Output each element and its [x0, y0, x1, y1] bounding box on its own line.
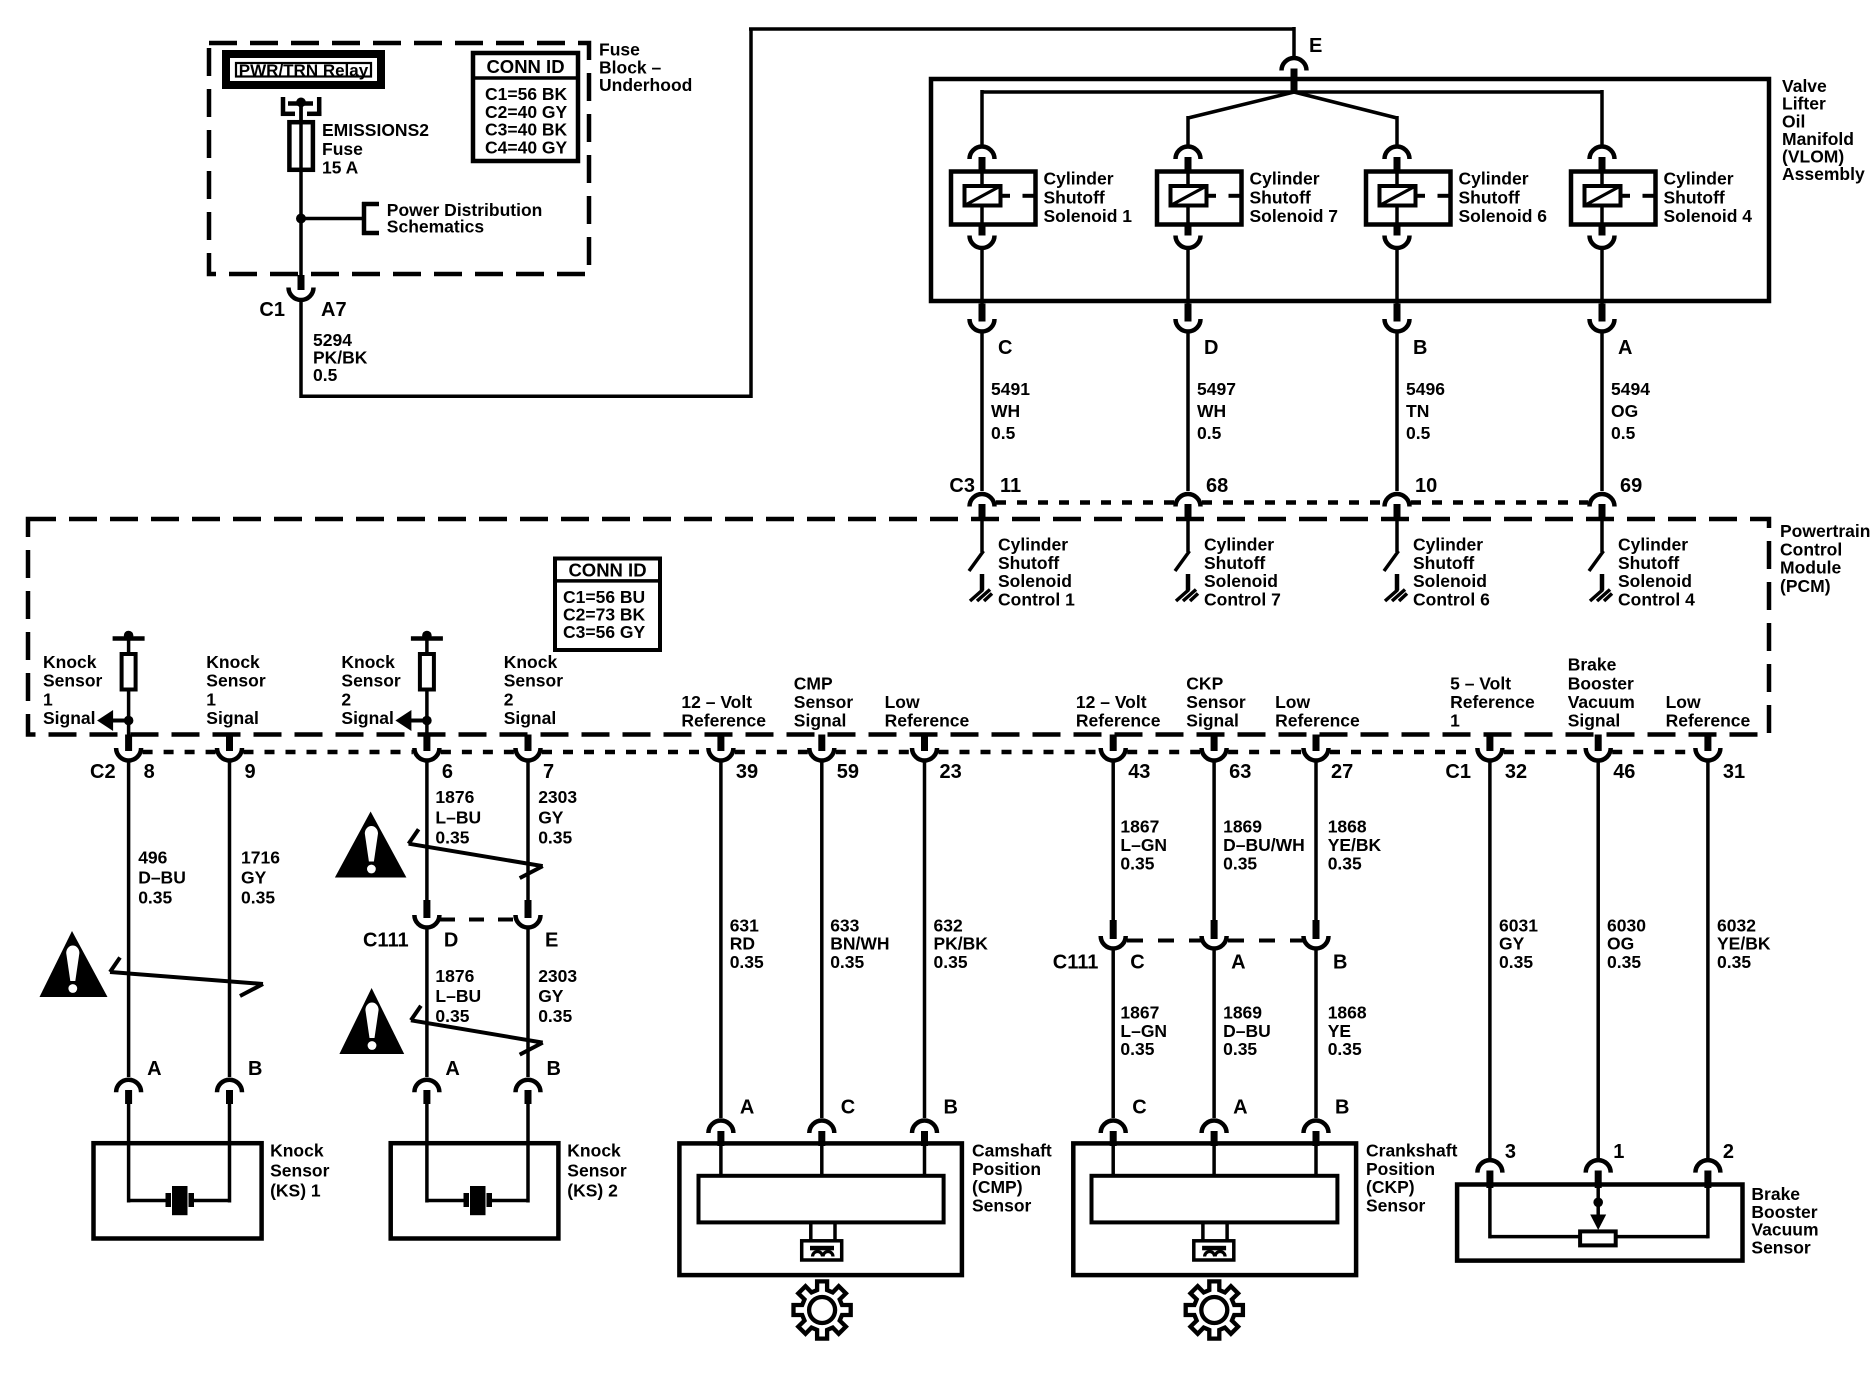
svg-text:Shutoff: Shutoff	[1204, 553, 1265, 573]
svg-text:C2: C2	[90, 761, 116, 783]
svg-text:0.5: 0.5	[1611, 423, 1636, 443]
svg-text:EMISSIONS2: EMISSIONS2	[322, 120, 429, 140]
svg-text:Cylinder: Cylinder	[1664, 169, 1734, 189]
svg-text:Schematics: Schematics	[387, 217, 485, 237]
CMP pin A connector	[708, 1121, 733, 1134]
svg-text:Assembly: Assembly	[1782, 164, 1865, 184]
C111 pin E	[525, 900, 532, 918]
VLOM connector pin D	[1185, 304, 1192, 322]
wire 6030 OG 0.35 (pin 46 to BBV 1)	[1596, 762, 1600, 1158]
svg-text:5494: 5494	[1611, 379, 1650, 399]
PCM pin 23 connector	[921, 735, 928, 752]
svg-text:46: 46	[1613, 761, 1635, 783]
solenoid top connector 4	[1590, 146, 1615, 159]
wire 1867 L-GN 0.35 upper (pin 43 to C111 C)	[1111, 762, 1115, 921]
C111 body dashed line	[440, 918, 515, 922]
wire 1867 L-GN 0.35 lower (C111 C to CKP C)	[1111, 950, 1115, 1118]
svg-text:0.35: 0.35	[138, 888, 172, 908]
wire solenoid 4 to pin	[1600, 249, 1604, 304]
BBV potentiometer	[1490, 1188, 1708, 1245]
svg-text:1: 1	[43, 689, 53, 709]
svg-text:E: E	[1309, 35, 1322, 57]
solenoid top connector 3	[1385, 146, 1410, 159]
svg-text:Cylinder: Cylinder	[1459, 169, 1529, 189]
svg-text:C: C	[841, 1097, 855, 1119]
fuse EMISSIONS2 15 A	[299, 103, 303, 170]
CKP connector pedestal icon	[1194, 1222, 1234, 1260]
svg-text:L–BU: L–BU	[435, 986, 481, 1006]
svg-text:Sensor: Sensor	[972, 1195, 1032, 1215]
svg-text:Powertrain: Powertrain	[1780, 521, 1870, 541]
svg-text:C111: C111	[363, 930, 409, 952]
wire 2303 GY 0.35 upper (pin 7 to C111 E)	[526, 762, 530, 901]
svg-text:2: 2	[504, 689, 514, 709]
wires into KS1	[127, 1104, 131, 1203]
BBV pin 3 connector	[1477, 1160, 1502, 1173]
fuse block underhood dashed box	[209, 43, 589, 274]
svg-text:Control 7: Control 7	[1204, 589, 1281, 609]
svg-text:0.5: 0.5	[1406, 423, 1431, 443]
svg-text:Reference: Reference	[1666, 711, 1751, 731]
svg-text:Knock: Knock	[567, 1140, 621, 1160]
svg-text:9: 9	[245, 761, 256, 783]
svg-text:631: 631	[730, 916, 759, 936]
C111 pin B	[1313, 920, 1320, 939]
svg-text:Cylinder: Cylinder	[1044, 169, 1114, 189]
svg-text:0.35: 0.35	[1607, 952, 1641, 972]
ground (PCM internal) 4	[1590, 590, 1603, 602]
bracket to Power Distribution Schematics	[362, 202, 367, 235]
signal arrow at R2 knock sensor 2 bias	[422, 716, 432, 726]
svg-text:D: D	[444, 930, 458, 952]
solenoid top connector 2	[1176, 146, 1201, 159]
solenoid bottom connector 4	[1599, 225, 1606, 236]
wire 631 RD 0.35 (pin 39 to CMP A)	[719, 762, 723, 1118]
switch: cylinder shutoff solenoid control 4 driver	[1600, 520, 1604, 552]
wire 6031 GY 0.35 (pin 32 to BBV 3)	[1488, 762, 1492, 1158]
wire 633 BN/WH 0.35 (pin 59 to CMP C)	[820, 762, 824, 1118]
svg-text:Solenoid: Solenoid	[1204, 571, 1278, 591]
svg-text:Signal: Signal	[341, 708, 394, 728]
svg-text:Camshaft: Camshaft	[972, 1141, 1052, 1161]
svg-text:Knock: Knock	[341, 652, 395, 672]
svg-text:(CKP): (CKP)	[1366, 1177, 1415, 1197]
svg-text:B: B	[547, 1058, 561, 1080]
svg-text:A: A	[740, 1097, 754, 1119]
svg-text:(PCM): (PCM)	[1780, 576, 1831, 596]
relay contact pin symbol	[281, 97, 322, 122]
svg-text:1876: 1876	[435, 966, 474, 986]
svg-text:WH: WH	[991, 401, 1020, 421]
svg-text:BN/WH: BN/WH	[830, 934, 889, 954]
PCM pin 27 connector	[1313, 735, 1320, 752]
connector C3 pin 68	[1176, 494, 1201, 507]
svg-text:0.35: 0.35	[1717, 952, 1751, 972]
wire 6032 YE/BK 0.35 (pin 31 to BBV 2)	[1706, 762, 1710, 1158]
svg-text:Knock: Knock	[270, 1140, 324, 1160]
svg-text:CONN ID: CONN ID	[486, 56, 564, 77]
svg-text:43: 43	[1128, 761, 1150, 783]
svg-text:YE/BK: YE/BK	[1717, 934, 1771, 954]
svg-text:B: B	[1413, 337, 1427, 359]
PCM pin 7 connector	[525, 735, 532, 752]
knock sensor KS2 box	[391, 1143, 559, 1238]
KS2 piezo transducer	[427, 1186, 528, 1215]
PCM pin 46 connector	[1595, 735, 1602, 752]
svg-text:2303: 2303	[538, 787, 577, 807]
svg-text:A: A	[1618, 337, 1632, 359]
svg-text:Control 4: Control 4	[1618, 589, 1695, 609]
PCM pin 6 connector	[423, 735, 430, 752]
svg-text:0.35: 0.35	[934, 952, 968, 972]
svg-text:0.35: 0.35	[1223, 854, 1257, 874]
svg-text:68: 68	[1206, 475, 1228, 497]
svg-text:5497: 5497	[1197, 379, 1236, 399]
svg-text:0.35: 0.35	[1328, 1039, 1362, 1059]
svg-text:Solenoid 6: Solenoid 6	[1459, 206, 1548, 226]
svg-text:6031: 6031	[1499, 916, 1538, 936]
svg-text:1: 1	[1613, 1141, 1624, 1163]
svg-text:Shutoff: Shutoff	[998, 553, 1059, 573]
KS2 pin A connector	[414, 1080, 439, 1093]
svg-text:C: C	[998, 337, 1012, 359]
PCM CONN ID table	[555, 559, 660, 651]
svg-text:C1: C1	[1445, 761, 1471, 783]
brake booster vacuum sensor box	[1457, 1185, 1742, 1261]
svg-text:TN: TN	[1406, 401, 1429, 421]
svg-text:Shutoff: Shutoff	[1618, 553, 1679, 573]
wire solenoid 1 to pin	[980, 249, 984, 304]
svg-text:Solenoid 1: Solenoid 1	[1044, 206, 1133, 226]
svg-text:L–BU: L–BU	[435, 807, 481, 827]
svg-text:Position: Position	[972, 1159, 1041, 1179]
PCM pin 8 connector	[125, 735, 132, 752]
KS1 piezo transducer	[129, 1186, 230, 1215]
note pointer line 3	[411, 1006, 543, 1055]
svg-text:Position: Position	[1366, 1159, 1435, 1179]
switch: cylinder shutoff solenoid control 6 driver	[1395, 520, 1399, 552]
solenoid L7 Cylinder Shutoff Solenoid 7	[1157, 172, 1242, 225]
CMP connector pedestal icon	[802, 1222, 842, 1260]
svg-text:OG: OG	[1611, 401, 1638, 421]
CKP inner element	[1092, 1176, 1338, 1223]
svg-text:C4=40 GY: C4=40 GY	[485, 137, 568, 157]
svg-text:A: A	[445, 1058, 459, 1080]
svg-text:Crankshaft: Crankshaft	[1366, 1141, 1458, 1161]
svg-text:2: 2	[341, 689, 351, 709]
svg-text:C: C	[1130, 952, 1144, 974]
svg-text:YE: YE	[1328, 1021, 1351, 1041]
svg-text:3: 3	[1505, 1141, 1516, 1163]
svg-text:Vacuum: Vacuum	[1568, 692, 1635, 712]
PCM Powertrain Control Module dashed box	[28, 519, 1769, 735]
svg-text:C: C	[1132, 1097, 1146, 1119]
junction node at fuse output	[296, 214, 306, 224]
svg-text:Cylinder: Cylinder	[1204, 535, 1274, 555]
svg-text:39: 39	[736, 761, 758, 783]
svg-text:C111: C111	[1053, 952, 1099, 974]
CMP sensor box	[679, 1143, 962, 1275]
svg-text:Reference: Reference	[1076, 711, 1161, 731]
switch: cylinder shutoff solenoid control 1 driver	[980, 520, 984, 552]
svg-text:Sensor: Sensor	[794, 692, 854, 712]
svg-text:Knock: Knock	[206, 652, 260, 672]
svg-text:GY: GY	[241, 868, 267, 888]
svg-text:WH: WH	[1197, 401, 1226, 421]
C111 body dashed lines	[1127, 939, 1201, 943]
solenoid L1 Cylinder Shutoff Solenoid 1	[951, 172, 1036, 225]
svg-text:1868: 1868	[1328, 817, 1367, 837]
svg-text:496: 496	[138, 848, 167, 868]
svg-text:C3: C3	[949, 475, 975, 497]
PCM pin 63 connector	[1211, 735, 1218, 752]
VLOM connector pin A	[1599, 304, 1606, 322]
svg-text:0.35: 0.35	[538, 1006, 572, 1026]
svg-text:0.35: 0.35	[1499, 952, 1533, 972]
svg-text:Shutoff: Shutoff	[1413, 553, 1474, 573]
svg-text:Solenoid 4: Solenoid 4	[1664, 206, 1753, 226]
KS2 pin B connector	[516, 1080, 541, 1093]
wire 1876 L-BU 0.35 lower (C111 D to KS2 A)	[425, 929, 429, 1077]
svg-text:12 – Volt: 12 – Volt	[1076, 692, 1147, 712]
warning triangle note 2	[335, 812, 407, 878]
svg-text:Solenoid 7: Solenoid 7	[1250, 206, 1338, 226]
wire 1869 D-BU 0.35 lower (C111 A to CKP A)	[1212, 950, 1216, 1118]
CMP inner element	[699, 1176, 944, 1223]
svg-text:Reference: Reference	[1450, 692, 1535, 712]
CMP pin C connector	[809, 1121, 834, 1134]
svg-text:Signal: Signal	[1186, 711, 1239, 731]
svg-text:Low: Low	[885, 692, 920, 712]
svg-text:Cylinder: Cylinder	[1250, 169, 1320, 189]
svg-text:Sensor: Sensor	[504, 671, 564, 691]
svg-text:PK/BK: PK/BK	[934, 934, 989, 954]
svg-text:CMP: CMP	[794, 673, 833, 693]
svg-text:Sensor: Sensor	[43, 671, 103, 691]
svg-text:Solenoid: Solenoid	[1618, 571, 1692, 591]
warning triangle note 3	[339, 988, 404, 1054]
connector C3 pin 69	[1590, 494, 1615, 507]
svg-text:Module: Module	[1780, 558, 1842, 578]
svg-text:Shutoff: Shutoff	[1664, 187, 1725, 207]
svg-text:Sensor: Sensor	[1366, 1195, 1426, 1215]
svg-text:6: 6	[442, 761, 453, 783]
svg-text:8: 8	[144, 761, 155, 783]
wire 632 PK/BK 0.35 (pin 23 to CMP B)	[923, 762, 927, 1118]
svg-text:D–BU: D–BU	[138, 868, 186, 888]
svg-text:Sensor: Sensor	[1751, 1238, 1811, 1258]
svg-text:A7: A7	[321, 299, 347, 321]
switch: cylinder shutoff solenoid control 7 driver	[1186, 520, 1190, 552]
svg-text:C3=56 GY: C3=56 GY	[563, 622, 646, 642]
svg-text:1: 1	[206, 689, 216, 709]
svg-text:7: 7	[543, 761, 554, 783]
wire 5294 PK/BK 0.5	[299, 301, 303, 398]
svg-text:(KS) 2: (KS) 2	[567, 1181, 618, 1201]
wire 1868 YE/BK 0.35 upper (pin 27 to C111 B)	[1314, 762, 1318, 921]
svg-text:5491: 5491	[991, 379, 1030, 399]
svg-text:Shutoff: Shutoff	[1459, 187, 1520, 207]
svg-text:Shutoff: Shutoff	[1250, 187, 1311, 207]
C111 pin A	[1211, 920, 1218, 939]
C111 pin D	[423, 900, 430, 918]
svg-text:27: 27	[1331, 761, 1353, 783]
CKP pin A connector	[1202, 1121, 1227, 1134]
svg-text:D: D	[1204, 337, 1218, 359]
svg-text:Signal: Signal	[206, 708, 259, 728]
resistor R1 knock sensor 1 bias	[113, 636, 145, 641]
svg-text:10: 10	[1415, 475, 1437, 497]
wire 1868 YE 0.35 lower (C111 B to CKP B)	[1314, 950, 1318, 1118]
wire 1876 L-BU 0.35 upper (pin 6 to C111 D)	[425, 762, 429, 901]
svg-text:Underhood: Underhood	[599, 75, 692, 95]
svg-text:0.35: 0.35	[730, 952, 764, 972]
svg-text:L–GN: L–GN	[1120, 835, 1167, 855]
svg-text:A: A	[1233, 1097, 1247, 1119]
knock sensor KS1 box	[94, 1143, 262, 1238]
svg-text:A: A	[1231, 952, 1245, 974]
solenoid bottom connector 3	[1394, 225, 1401, 236]
note pointer line 2	[409, 829, 543, 878]
CKP sensor box	[1073, 1143, 1356, 1275]
wire E distribution bus inside VLOM	[982, 90, 1602, 94]
svg-text:GY: GY	[538, 986, 564, 1006]
fuse block CONN ID table	[473, 53, 578, 161]
svg-text:Signal: Signal	[43, 708, 96, 728]
svg-text:32: 32	[1505, 761, 1527, 783]
svg-text:(CMP): (CMP)	[972, 1177, 1023, 1197]
svg-text:Sensor: Sensor	[341, 671, 401, 691]
VLOM assembly box	[931, 79, 1769, 301]
note pointer line 1	[110, 958, 263, 997]
warning triangle note 1	[40, 931, 108, 997]
wire 1716 GY 0.35 (pin 9 to KS1 B)	[228, 762, 232, 1077]
svg-text:5496: 5496	[1406, 379, 1445, 399]
svg-text:0.35: 0.35	[241, 888, 275, 908]
svg-text:D–BU: D–BU	[1223, 1021, 1271, 1041]
svg-text:0.35: 0.35	[538, 827, 572, 847]
svg-text:0.5: 0.5	[313, 365, 338, 385]
svg-text:Signal: Signal	[504, 708, 557, 728]
svg-text:633: 633	[830, 916, 859, 936]
PCM pin 59 connector	[818, 735, 825, 752]
resistor R2 knock sensor 2 bias	[411, 636, 443, 641]
svg-text:B: B	[944, 1097, 958, 1119]
svg-text:L–GN: L–GN	[1120, 1021, 1167, 1041]
PCM pin 43 connector	[1110, 735, 1117, 752]
svg-text:Solenoid: Solenoid	[1413, 571, 1487, 591]
connector C1 pin A7 (fuse block exit)	[298, 275, 305, 290]
connector E at VLOM	[1282, 58, 1307, 71]
svg-text:C1: C1	[259, 299, 285, 321]
svg-text:Fuse: Fuse	[322, 139, 363, 159]
gear icon (CKP reluctor)	[1186, 1281, 1243, 1338]
svg-text:Reference: Reference	[1275, 711, 1360, 731]
svg-text:Cylinder: Cylinder	[1413, 535, 1483, 555]
svg-text:Low: Low	[1275, 692, 1310, 712]
svg-text:632: 632	[934, 916, 963, 936]
svg-text:YE/BK: YE/BK	[1328, 835, 1382, 855]
svg-text:GY: GY	[1499, 934, 1525, 954]
svg-text:0.35: 0.35	[435, 827, 469, 847]
svg-text:0.35: 0.35	[1120, 1039, 1154, 1059]
solenoid bottom connector 2	[1185, 225, 1192, 236]
svg-text:6030: 6030	[1607, 916, 1646, 936]
svg-text:69: 69	[1620, 475, 1642, 497]
svg-text:1716: 1716	[241, 848, 280, 868]
CKP pin C connector	[1101, 1121, 1126, 1134]
PCM pin 31 connector	[1704, 735, 1711, 752]
KS1 pin B connector	[217, 1080, 242, 1093]
svg-text:31: 31	[1723, 761, 1745, 783]
svg-text:6032: 6032	[1717, 916, 1756, 936]
svg-text:Cylinder: Cylinder	[1618, 535, 1688, 555]
svg-text:Booster: Booster	[1568, 673, 1634, 693]
svg-text:12 – Volt: 12 – Volt	[681, 692, 752, 712]
svg-text:Reference: Reference	[885, 711, 970, 731]
VLOM connector pin B	[1394, 304, 1401, 322]
wire solenoid 7 to pin	[1186, 249, 1190, 304]
solenoid L4 Cylinder Shutoff Solenoid 4	[1571, 172, 1656, 225]
svg-text:0.35: 0.35	[435, 1006, 469, 1026]
PCM pin 39 connector	[717, 735, 724, 752]
svg-text:E: E	[545, 930, 558, 952]
svg-text:CKP: CKP	[1186, 673, 1223, 693]
svg-text:D–BU/WH: D–BU/WH	[1223, 835, 1305, 855]
ground (PCM internal) 2	[1176, 590, 1189, 602]
signal arrow at R1 knock sensor 1 bias	[124, 716, 134, 726]
connector strip C3 dotted line	[996, 500, 1174, 505]
svg-text:1869: 1869	[1223, 1003, 1262, 1023]
wire to power distribution bracket	[301, 217, 364, 221]
svg-text:2303: 2303	[538, 966, 577, 986]
svg-text:Signal: Signal	[1568, 711, 1621, 731]
wire 1869 D-BU/WH 0.35 upper (pin 63 to C111 A)	[1212, 762, 1216, 921]
svg-text:Solenoid: Solenoid	[998, 571, 1072, 591]
svg-text:15 A: 15 A	[322, 158, 359, 178]
svg-text:Signal: Signal	[794, 711, 847, 731]
svg-text:Sensor: Sensor	[270, 1161, 330, 1181]
wire fuse to connector C1	[299, 170, 303, 277]
wire 2303 GY 0.35 lower (C111 E to KS2 B)	[526, 929, 530, 1077]
C111 pin C	[1110, 920, 1117, 939]
svg-text:1: 1	[1450, 711, 1460, 731]
svg-text:GY: GY	[538, 807, 564, 827]
svg-text:1867: 1867	[1120, 817, 1159, 837]
BBV pin 1 connector	[1586, 1160, 1611, 1173]
svg-text:A: A	[147, 1058, 161, 1080]
svg-text:Knock: Knock	[43, 652, 97, 672]
svg-text:0.35: 0.35	[1328, 854, 1362, 874]
svg-text:Cylinder: Cylinder	[998, 535, 1068, 555]
svg-text:Sensor: Sensor	[1186, 692, 1246, 712]
svg-text:2: 2	[1723, 1141, 1734, 1163]
ground (PCM internal) 1	[970, 590, 983, 602]
svg-text:OG: OG	[1607, 934, 1634, 954]
svg-text:Low: Low	[1666, 692, 1701, 712]
svg-text:1868: 1868	[1328, 1003, 1367, 1023]
svg-text:Sensor: Sensor	[206, 671, 266, 691]
svg-text:0.35: 0.35	[1120, 854, 1154, 874]
solenoid bottom connector 1	[979, 225, 986, 236]
svg-text:Brake: Brake	[1568, 655, 1617, 675]
wire solenoid 6 to pin	[1395, 249, 1399, 304]
connector C3 pin 10	[1385, 494, 1410, 507]
KS1 pin A connector	[116, 1080, 141, 1093]
svg-text:(KS) 1: (KS) 1	[270, 1181, 321, 1201]
svg-text:RD: RD	[730, 934, 755, 954]
svg-text:1867: 1867	[1120, 1003, 1159, 1023]
